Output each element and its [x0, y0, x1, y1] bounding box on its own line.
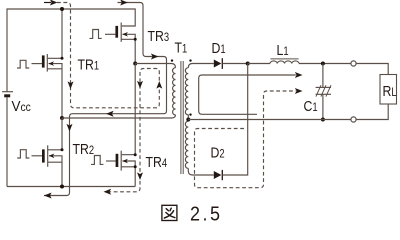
svg-text:Vcc: Vcc [12, 99, 32, 116]
TR4 drain junction dot [134, 153, 137, 156]
diode D1 [193, 63, 214, 65]
wire bottom rail [7, 186, 135, 188]
caption 図 2.5 [162, 205, 177, 220]
svg-text:TR2: TR2 [73, 141, 95, 157]
transformer T1 primary winding [173, 68, 176, 115]
battery VCC [2, 91, 13, 93]
svg-text:TR1: TR1 [78, 56, 100, 72]
node H (C1 bottom) [321, 118, 325, 122]
transistor Q TR4 [91, 156, 103, 165]
transistor Q TR1 [17, 60, 29, 68]
node B (left leg midpoint) [60, 116, 64, 120]
solid current path: rectifier output loop through D1, L1 to load [199, 75, 296, 114]
node D (right leg midpoint) [133, 62, 137, 66]
svg-text:C1: C1 [304, 98, 318, 114]
wire right bus (node D to TR4 drain) [122, 64, 135, 155]
node G (C1 top) [321, 62, 325, 66]
node C (bottom rail / TR2 source) [60, 185, 64, 189]
svg-text:D2: D2 [211, 144, 225, 160]
inductor L1 [248, 63, 270, 65]
wire left bus upper (node to TR1 drain) [48, 9, 62, 58]
TR3 source junction dot [134, 38, 137, 41]
transistor Q TR2 [17, 150, 29, 158]
wire top rail from battery to TR3 drain [7, 9, 135, 92]
transformer T1 core [181, 61, 183, 174]
wire terminals to load RL [356, 64, 388, 75]
wire output return rail (center tap to load) [188, 119, 351, 121]
node E (secondary center tap) [186, 118, 190, 122]
TR1 drain junction dot [61, 57, 64, 60]
transistor Q TR3 [90, 30, 102, 39]
output terminal top [351, 61, 356, 66]
svg-text:T1: T1 [175, 39, 188, 55]
svg-text:D1: D1 [212, 40, 226, 56]
svg-text:RL: RL [383, 83, 397, 99]
svg-text:L1: L1 [277, 42, 289, 58]
wire node D to transformer primary top [135, 64, 175, 68]
solid current path: VCC through TR3, T1 primary, back via TR2 [44, 3, 167, 196]
svg-text:2.5: 2.5 [190, 203, 223, 225]
svg-text:TR4: TR4 [146, 154, 168, 170]
wire D2 cathode up to node F [222, 64, 247, 176]
dashed current path: freewheel loop through D2 and C1 [195, 91, 296, 188]
wire left bus lower (node B to TR2 drain) [48, 118, 62, 150]
node F (rectifier output node) [246, 62, 250, 66]
T1 polarity dots [171, 59, 173, 61]
TR2 drain junction dot [61, 148, 64, 151]
resistor RL (load) [380, 75, 397, 105]
wire transformer primary bottom to node B [62, 115, 176, 118]
output terminal bottom [351, 117, 356, 122]
capacitor C1 [322, 64, 324, 88]
node A (top rail / left bus junction) [60, 7, 64, 11]
dashed current path: VCC through TR1, T1 primary, TR4 [57, 3, 159, 192]
transformer T1 secondary winding upper [188, 64, 192, 68]
transformer T1 secondary winding lower [187, 120, 189, 122]
diode D2 [193, 174, 214, 176]
svg-text:TR3: TR3 [148, 28, 170, 44]
